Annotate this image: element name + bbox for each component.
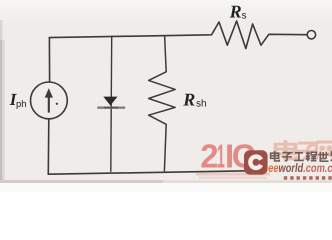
svg-text:1: 1 — [217, 138, 225, 175]
svg-text:sh: sh — [196, 99, 207, 110]
svg-text:R: R — [182, 90, 195, 110]
svg-text:s: s — [242, 11, 247, 22]
svg-text:2: 2 — [200, 138, 218, 175]
svg-text:R: R — [229, 2, 242, 22]
svg-text:eeworld.com.cn: eeworld.com.cn — [268, 163, 332, 175]
svg-text:ph: ph — [16, 99, 27, 110]
